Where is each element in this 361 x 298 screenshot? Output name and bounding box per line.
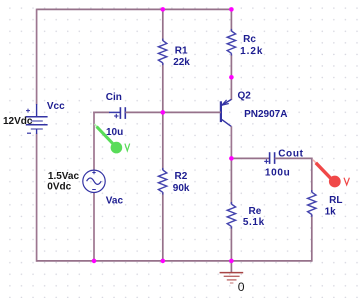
svg-text:Re: Re — [249, 206, 262, 217]
svg-text:1k: 1k — [325, 207, 337, 218]
wire Cin right — [125, 111, 163, 113]
wire Vac top — [93, 112, 95, 171]
capacitor Cin plus mark — [114, 114, 118, 118]
ground stub wire — [230, 261, 232, 273]
wire Rc top — [230, 9, 232, 31]
svg-text:100u: 100u — [265, 167, 291, 178]
source Vac (sine) — [83, 170, 105, 192]
svg-text:Rc: Rc — [243, 34, 256, 45]
junction base node — [161, 110, 166, 115]
probe V red (output marker) — [313, 160, 341, 188]
junction Vac bottom — [92, 259, 97, 264]
resistor R1 — [158, 41, 166, 63]
wire left column lower — [36, 134, 38, 262]
battery plus sign — [26, 109, 30, 113]
wire emitter stub — [230, 77, 232, 101]
resistor R2 — [158, 170, 166, 192]
wire R1 bottom to base node — [162, 63, 164, 113]
svg-text:22k: 22k — [173, 57, 190, 68]
wire Cout left — [231, 157, 269, 159]
label V red — [344, 178, 349, 185]
junction top R1 — [161, 7, 166, 12]
svg-text:90k: 90k — [173, 183, 190, 194]
junction top Rc — [229, 7, 234, 12]
wire Cin left pin — [93, 111, 109, 113]
wire RL bottom — [311, 215, 313, 262]
wire R2 top — [162, 112, 164, 170]
svg-text:12Vdc: 12Vdc — [3, 116, 33, 127]
svg-text:1.5Vac: 1.5Vac — [48, 171, 80, 182]
battery minus sign — [27, 132, 31, 134]
svg-text:PN2907A: PN2907A — [244, 109, 287, 120]
wire Vac bottom — [93, 192, 95, 261]
junction ground node — [229, 259, 234, 264]
wire R2 bottom — [162, 192, 164, 261]
capacitor Cout — [270, 152, 275, 164]
svg-text:0: 0 — [238, 280, 245, 294]
wire Rc bottom to node — [230, 55, 232, 77]
wire Re top — [230, 158, 232, 204]
svg-text:Vcc: Vcc — [47, 101, 65, 112]
ground 0 symbol — [220, 273, 244, 283]
wire Re bottom — [230, 226, 232, 261]
junction collector Cout node — [229, 156, 234, 161]
svg-text:1.2k: 1.2k — [240, 46, 263, 57]
wire RL top — [311, 158, 313, 193]
junction Rc emitter node — [229, 75, 234, 80]
wire collector down — [230, 126, 232, 158]
resistor RL — [308, 192, 316, 214]
svg-text:R1: R1 — [175, 46, 188, 57]
svg-text:Cout: Cout — [278, 148, 303, 159]
resistor Rc — [227, 31, 235, 53]
battery V1 Vcc — [26, 104, 48, 134]
svg-text:10u: 10u — [106, 127, 123, 138]
svg-text:Vac: Vac — [106, 196, 124, 207]
transistor Q2 emitter arrow — [222, 100, 229, 105]
capacitor Cout plus mark — [264, 159, 268, 163]
svg-text:Q2: Q2 — [238, 91, 252, 102]
svg-text:R2: R2 — [175, 171, 188, 182]
source Vac plus mark — [92, 171, 95, 174]
wire left column upper — [36, 9, 38, 105]
capacitor Cin — [120, 107, 125, 119]
label V green — [125, 144, 130, 151]
wire bottom rail — [37, 260, 312, 262]
resistor Re — [227, 204, 235, 226]
transistor Q2 — [221, 99, 232, 126]
svg-text:Cin: Cin — [106, 92, 122, 103]
wire R1 top — [162, 9, 164, 40]
junction R2 bottom — [161, 259, 166, 264]
wire Cout right — [275, 157, 313, 159]
source Vac minus mark — [92, 189, 96, 191]
resistor pin stubs (navy) — [163, 29, 312, 229]
svg-text:5.1k: 5.1k — [243, 217, 265, 228]
svg-text:RL: RL — [329, 195, 342, 206]
probe V green (input marker) — [94, 124, 122, 153]
svg-text:0Vdc: 0Vdc — [47, 182, 71, 193]
wire top rail — [37, 8, 232, 10]
wire base from divider node — [163, 111, 221, 113]
